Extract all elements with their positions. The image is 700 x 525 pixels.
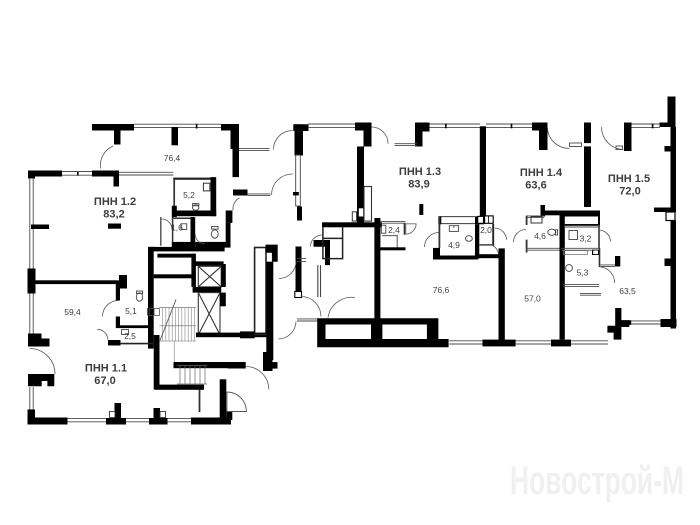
- sink in 5.2: [203, 183, 210, 191]
- room 3.2 corner tab: [592, 250, 599, 255]
- apartment 1.1 entry north wall: [174, 362, 246, 368]
- svg-text:72,0: 72,0: [619, 185, 640, 197]
- wall stub west of 4.6: [541, 205, 546, 217]
- svg-text:1,6: 1,6: [171, 222, 183, 232]
- svg-text:83,9: 83,9: [408, 178, 429, 190]
- left block top wall seg1: [29, 171, 62, 177]
- wall 76.6 west: [374, 218, 380, 321]
- wall 59.4/5.1 lower stub: [116, 317, 120, 328]
- door threshold corridor upper: [297, 259, 306, 262]
- room 5.3 bottom wall: [563, 285, 599, 287]
- right outer wall top: [660, 97, 676, 128]
- svg-text:4,6: 4,6: [534, 231, 546, 241]
- room 4.9 left wall: [438, 216, 440, 248]
- room 4.9 left bottom corner: [433, 248, 440, 259]
- left wall pier mid: [28, 269, 36, 294]
- wall pier P9: [624, 123, 632, 152]
- core east wall bottom end: [263, 352, 273, 371]
- threshold 5.3 to stub: [601, 265, 616, 267]
- room 2.4 right wall: [404, 223, 406, 235]
- svg-text:2,4: 2,4: [388, 225, 400, 235]
- sink in 2.4: [381, 225, 386, 233]
- elevator lobby wall: [195, 261, 224, 266]
- apartment 1.1 east wall: [220, 379, 227, 424]
- left outer wall top corner: [28, 171, 35, 179]
- svg-text:63,6: 63,6: [525, 179, 546, 191]
- corridor east wall: [296, 247, 302, 292]
- svg-text:76,6: 76,6: [433, 285, 450, 295]
- wall pier P4: [355, 123, 372, 147]
- right outer wall segment 4: [671, 221, 677, 329]
- wall line 2.5 to core: [121, 343, 154, 345]
- svg-text:4,9: 4,9: [448, 240, 460, 250]
- duct right of 1.3 wall: [364, 187, 372, 222]
- svg-text:ПНН 1.4: ПНН 1.4: [520, 167, 563, 179]
- 1.1 bottom pier 1: [106, 403, 126, 425]
- wall pier P7: [532, 123, 548, 151]
- stairs treads: [159, 307, 196, 341]
- svg-text:ПНН 1.3: ПНН 1.3: [399, 166, 441, 178]
- left wall corner block at 59.4: [28, 334, 50, 347]
- wall stub x615 upper: [615, 256, 620, 267]
- wall pier P3: [293, 124, 308, 131]
- svg-text:Новострой-М: Новострой-М: [510, 459, 684, 503]
- svg-text:67,0: 67,0: [94, 375, 115, 387]
- pier P1 stub: [114, 131, 121, 145]
- wall foot at y190: [233, 190, 248, 196]
- stairs entry flight: [177, 366, 207, 385]
- svg-text:76,4: 76,4: [164, 153, 181, 163]
- room 1.6 top wall: [173, 217, 190, 219]
- svg-text:63,5: 63,5: [619, 286, 636, 296]
- room 5.2 left wall thin: [173, 178, 175, 206]
- toilet in bathroom: [211, 227, 218, 239]
- door arc into 1.6: [162, 219, 173, 230]
- divider 76.6/57.0: [499, 248, 505, 340]
- door arc 5.1: [103, 301, 119, 317]
- core east wall: [266, 262, 273, 360]
- door slot through P8: [584, 143, 592, 146]
- wall y210 pnn1.4: [544, 211, 600, 216]
- loggia frame: [317, 318, 448, 347]
- wall y222 corridor top: [322, 222, 382, 227]
- wall pier P5: [415, 123, 430, 147]
- bathroom right wall: [226, 211, 233, 223]
- bottom pier under divider: [483, 340, 516, 347]
- wall above core x232: [233, 149, 240, 177]
- door arc into 76.6: [301, 297, 321, 317]
- door threshold A5: [616, 146, 623, 150]
- wall west from core: [240, 331, 255, 338]
- core east wall top corner: [266, 245, 278, 262]
- wall y254 below 2.0: [475, 254, 499, 258]
- wall stub x419: [419, 204, 423, 215]
- room 4.9 top wall: [439, 217, 475, 224]
- left block top window: [62, 172, 92, 176]
- room 4.9 top wall tick: [438, 216, 441, 224]
- svg-text:2,0: 2,0: [480, 225, 492, 235]
- notch in 1.3 west wall: [359, 208, 363, 216]
- pier 2 square: [160, 412, 166, 418]
- door threshold A4: [570, 143, 582, 147]
- sink in 4.9: [466, 236, 473, 242]
- hall top wall thin: [248, 194, 271, 196]
- toilet in 5.2: [193, 204, 199, 211]
- elevator 1 east wall: [221, 264, 226, 287]
- room 3.2 right wall: [598, 225, 600, 248]
- svg-text:83,2: 83,2: [103, 208, 124, 220]
- core west wall: [148, 247, 154, 349]
- door arc 76.6 to loggia: [328, 297, 355, 317]
- right wall tab 2: [654, 208, 676, 213]
- room 1.6 bottom wall: [172, 242, 195, 248]
- svg-text:ПНН 1.5: ПНН 1.5: [608, 173, 650, 185]
- room 3.2 bottom wall: [562, 248, 600, 250]
- wall x199 vertical: [199, 390, 201, 413]
- wall stub bottom of 2.5: [108, 340, 121, 346]
- door arc A5: [602, 127, 624, 150]
- svg-text:5,3: 5,3: [577, 268, 589, 278]
- sink in 3.2: [569, 231, 578, 240]
- svg-text:ПНН 1.2: ПНН 1.2: [94, 196, 136, 208]
- room 4.6 left wall: [526, 216, 528, 253]
- room 2.0 right wall: [492, 224, 494, 245]
- door arc 2.5: [97, 329, 108, 340]
- right wall bottom corner: [661, 319, 677, 327]
- wall block north of 1.1: [28, 374, 54, 386]
- svg-text:57,0: 57,0: [524, 294, 541, 304]
- core north wall: [148, 247, 225, 252]
- stairs newel box: [149, 309, 159, 316]
- washer in 4.9: [449, 226, 458, 232]
- pier 1 square: [110, 412, 116, 418]
- 1.1 bottom window 1: [68, 419, 107, 422]
- room 4.9 door arc: [425, 233, 439, 248]
- room 4.6 top wall: [526, 216, 544, 218]
- svg-text:2,5: 2,5: [124, 331, 136, 341]
- wall pier P2: [221, 124, 239, 131]
- room 4.9 bottom wall: [433, 256, 478, 260]
- partition stubs in 1.2: [31, 225, 49, 230]
- room 5.2 top wall thin: [173, 178, 211, 180]
- toilet in 4.6: [548, 229, 558, 235]
- room 5.3 right wall: [599, 248, 601, 267]
- hall west line: [160, 217, 162, 246]
- wall stub NE of corridor: [314, 240, 331, 265]
- bottom window 57.0 b: [571, 341, 608, 344]
- room 1.6 east wall: [191, 217, 196, 245]
- door arc top A1: [100, 146, 113, 169]
- door arc A2: [274, 131, 293, 150]
- bottom window 63.5: [629, 321, 660, 324]
- bottom pier 57.0: [551, 340, 571, 347]
- wall y384 below stairs: [155, 385, 204, 390]
- door arc A4: [548, 128, 570, 149]
- elevator divider: [193, 287, 222, 293]
- shaft lines right corridor: [318, 265, 321, 297]
- big duct box: [562, 216, 599, 226]
- room 2.0 bottom wall: [480, 244, 495, 246]
- door arc A3: [372, 127, 389, 144]
- interior wall 1.2/59.4: [35, 280, 119, 284]
- room 2.0 door arc: [495, 228, 507, 240]
- left block top wall seg2: [92, 171, 119, 187]
- wall pier P8 divider 1.4/1.5 top: [584, 123, 591, 208]
- wall stub below P3: [297, 207, 302, 221]
- core south wall: [196, 333, 267, 338]
- washer in 5.1: [148, 309, 155, 316]
- wall 5.1/2.5: [116, 325, 152, 328]
- elevator 1: [198, 266, 221, 287]
- niche line below 5.3: [580, 294, 601, 296]
- room 2.4 door wedge: [406, 224, 416, 234]
- door arc at closet: [311, 235, 323, 247]
- pocket door arc: [493, 245, 499, 257]
- left outer window 1.1: [30, 387, 33, 410]
- svg-text:ПНН 1.1: ПНН 1.1: [85, 363, 127, 375]
- toilet in 5.1: [136, 291, 142, 301]
- shaft lines below P3: [296, 155, 301, 206]
- door wall A2: [239, 149, 270, 151]
- duct boxes top of 2.0: [478, 216, 484, 223]
- room 5.2 right wall: [211, 177, 217, 216]
- entry block east: [228, 362, 246, 369]
- right wall duct box: [666, 212, 675, 221]
- right outer wall segment 3: [671, 152, 677, 208]
- core inner wall y275: [154, 274, 193, 278]
- room 5.2 bottom wall: [175, 211, 216, 217]
- door arc into bathroom: [195, 234, 205, 244]
- room 2.4 top wall: [380, 222, 405, 224]
- room 5.2 top window line: [119, 172, 173, 175]
- right outer wall segment 2: [671, 127, 677, 148]
- room 4.6 bottom wall: [526, 248, 560, 250]
- 1.1 bottom wall right seg: [191, 418, 231, 425]
- svg-text:3,2: 3,2: [580, 234, 592, 244]
- room 3.2 door arc: [600, 230, 611, 242]
- window top band segment 1: [134, 124, 660, 128]
- 1.1 bottom window 3: [168, 419, 192, 422]
- wall pier P1 top-left: [92, 124, 134, 131]
- pnn1.3 west wall: [357, 147, 364, 223]
- stair lobby wall: [157, 254, 195, 258]
- bottom window 76.6: [449, 341, 482, 344]
- door threshold corridor lower: [297, 319, 318, 321]
- room 5.3 counter: [564, 251, 588, 255]
- divider jog at y216: [475, 216, 485, 224]
- wall x615 lower with tabs: [607, 308, 629, 340]
- core east shaft outline: [255, 248, 266, 335]
- door arc 59.4 to 1.1: [30, 349, 56, 375]
- duct left of 1.3 wall: [352, 212, 356, 221]
- right wall tab 3: [665, 259, 671, 267]
- room 4.6 door arc: [514, 229, 527, 242]
- room 5.3 door arc: [601, 267, 615, 283]
- elevator 1 west wall: [191, 254, 196, 287]
- stair landing rail line: [173, 341, 175, 363]
- door arc corridor upper: [279, 262, 296, 279]
- svg-text:5,2: 5,2: [183, 190, 195, 200]
- 1.1 bottom window 2: [126, 419, 149, 422]
- window stub x171: [172, 127, 179, 145]
- wall 59.4/5.1 upper: [116, 284, 120, 301]
- closet walls: [323, 227, 343, 259]
- door jamb x293: [293, 192, 299, 195]
- room 2.4 bottom wall: [380, 247, 406, 250]
- room 5.3 washer circle: [566, 265, 573, 272]
- room 3.2 top wall: [564, 225, 600, 227]
- door wall A3 threshold: [395, 144, 418, 146]
- door arc hall top: [272, 174, 293, 195]
- door arc entry: [246, 367, 269, 390]
- room 2.4 inner partition: [382, 235, 397, 250]
- svg-text:5,1: 5,1: [125, 306, 137, 316]
- svg-text:59,4: 59,4: [64, 307, 81, 317]
- bathroom bottom wall: [195, 242, 230, 248]
- sink in 1.6: [181, 224, 187, 230]
- elevator 2: [198, 293, 220, 335]
- interior wall hook: [119, 275, 127, 289]
- stair west wall lower: [154, 335, 160, 390]
- room 5.2 left wall stub: [172, 206, 177, 217]
- bottom window 57.0 a: [516, 341, 551, 344]
- wall pier P6 divider 1.3/1.4 top: [480, 126, 486, 216]
- 1.1 bottom pier 2: [149, 408, 168, 425]
- door arc corridor lower: [279, 322, 297, 340]
- corridor east wall notch: [295, 292, 302, 298]
- door arc 1.2 entry: [233, 198, 240, 210]
- divider lower thin segment: [475, 224, 479, 258]
- room 1.6 left wall: [172, 217, 174, 242]
- left outer window lower: [30, 294, 33, 334]
- entrance door quarter: [227, 392, 247, 412]
- left outer window upper: [30, 178, 33, 269]
- duct box in 4.6: [531, 217, 542, 224]
- elevator 2 east wall: [220, 293, 226, 307]
- window mullion ticks: [77, 124, 653, 176]
- divider 57.0/63.5: [560, 211, 565, 340]
- right wall tab 1: [665, 146, 677, 152]
- stairs arrow: [160, 300, 176, 341]
- bottom-left corner 1.1: [28, 410, 68, 425]
- sink in 2.5: [122, 330, 129, 335]
